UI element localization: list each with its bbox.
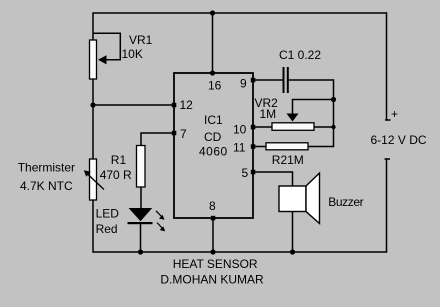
- svg-text:D.MOHAN KUMAR: D.MOHAN KUMAR: [160, 273, 264, 287]
- wire VR2 right end: [314, 126, 334, 128]
- wire VR1 to junction: [92, 79, 94, 159]
- wire right branch vertical: [333, 79, 335, 146]
- svg-text:Red: Red: [96, 222, 118, 236]
- thermistor TH1 diagonal arrow: [88, 175, 104, 190]
- junction dot pin16 at IC: [210, 70, 215, 75]
- wire bottom rail: [93, 251, 387, 253]
- svg-text:470 R: 470 R: [100, 168, 132, 182]
- wire pin 9 to C1: [253, 79, 283, 81]
- junction dot buzzer bottom: [290, 249, 295, 254]
- potentiometer VR1 wiper arrow: [98, 55, 107, 64]
- svg-text:4.7K NTC: 4.7K NTC: [20, 179, 73, 193]
- wire pin 16: [212, 13, 214, 73]
- junction dot VR2 wiper: [331, 97, 336, 102]
- wire R1 to LED: [140, 187, 142, 209]
- wire pin 11 to R2: [253, 146, 266, 148]
- wire thermistor to bottom rail: [92, 200, 94, 253]
- svg-text:R1: R1: [111, 153, 127, 167]
- wire VR1 wiper loop: [93, 33, 120, 60]
- svg-text:10: 10: [233, 123, 247, 137]
- pin square 11: [251, 144, 256, 149]
- wire VR2 wiper: [293, 100, 334, 115]
- LED D1 cathode bar: [128, 222, 153, 224]
- wire pin 7: [141, 133, 174, 146]
- svg-text:4060: 4060: [199, 145, 228, 159]
- pin square 10: [251, 125, 256, 130]
- svg-text:Buzzer: Buzzer: [328, 195, 363, 209]
- junction dot LED bottom: [138, 249, 143, 254]
- svg-text:16: 16: [208, 79, 222, 93]
- wire battery negative lead: [385, 159, 391, 252]
- svg-text:LED: LED: [96, 207, 120, 221]
- wire buzzer to bottom rail: [292, 211, 294, 252]
- potentiometer VR2 body: [272, 123, 314, 131]
- junction dot left branch pin12: [90, 102, 95, 107]
- LED light arrow 1: [156, 211, 162, 217]
- svg-text:CD: CD: [204, 130, 222, 144]
- thermistor TH1 body: [90, 159, 97, 200]
- svg-text:11: 11: [233, 141, 246, 155]
- svg-text:IC1: IC1: [204, 113, 223, 127]
- svg-text:VR1: VR1: [129, 33, 153, 47]
- svg-text:1M: 1M: [260, 107, 277, 121]
- svg-text:+: +: [391, 107, 398, 121]
- wire top rail: [93, 12, 387, 14]
- wire R2 right end: [308, 146, 334, 148]
- pin square 5: [251, 170, 256, 175]
- pin square 9: [251, 78, 256, 83]
- svg-text:9: 9: [240, 77, 247, 91]
- buzzer BZ1 body: [279, 186, 306, 212]
- svg-text:Thermister: Thermister: [18, 161, 75, 175]
- junction dot VR2 right: [331, 125, 335, 129]
- wire pin 8: [212, 218, 214, 252]
- pin square 8: [211, 216, 216, 221]
- junction dot pin8 bottom: [210, 249, 215, 254]
- LED light arrow 2: [157, 223, 162, 229]
- svg-text:6-12 V DC: 6-12 V DC: [371, 133, 427, 147]
- buzzer BZ1 horn: [306, 173, 320, 224]
- capacitor C1 plates: [284, 67, 288, 93]
- wire LED to bottom rail: [140, 223, 142, 252]
- wire battery positive lead: [385, 12, 391, 120]
- svg-text:8: 8: [209, 199, 216, 213]
- pin square 12: [172, 103, 177, 108]
- potentiometer VR2 wiper arrow: [287, 114, 299, 122]
- svg-text:HEAT SENSOR: HEAT SENSOR: [173, 257, 258, 271]
- wire left branch upper: [92, 12, 94, 40]
- op IC1 CD4060 box: [174, 73, 253, 218]
- resistor R2 body: [266, 143, 308, 150]
- junction dot top rail pin16: [210, 10, 215, 15]
- svg-text:10K: 10K: [122, 47, 143, 61]
- svg-text:5: 5: [242, 166, 249, 180]
- wire C1 to right branch: [288, 79, 334, 81]
- wire pin 12: [93, 104, 174, 106]
- resistor R1 body: [137, 146, 146, 188]
- wire pin 5 to buzzer: [253, 172, 293, 186]
- pin square 7: [172, 131, 177, 136]
- svg-text:C1 0.22: C1 0.22: [279, 48, 321, 62]
- potentiometer VR1 body: [90, 40, 97, 79]
- wire pin 10 to VR2: [253, 126, 272, 128]
- LED D1 triangle: [129, 208, 153, 221]
- svg-text:7: 7: [180, 127, 187, 141]
- svg-text:12: 12: [180, 98, 194, 112]
- svg-text:R21M: R21M: [272, 153, 304, 167]
